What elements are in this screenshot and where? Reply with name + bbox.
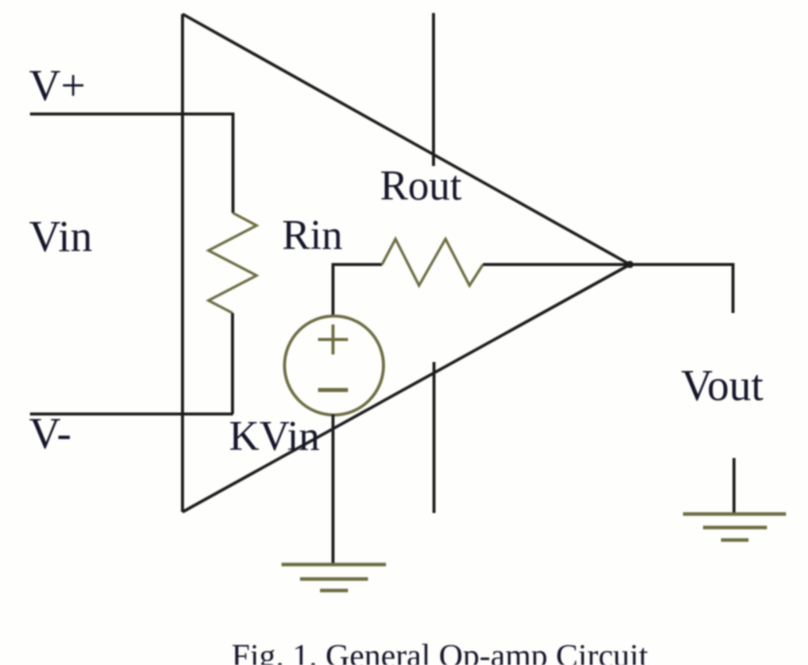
wire: output node to Vout stub — [630, 265, 733, 314]
dependent source KVin (controlled voltage source) — [285, 316, 384, 415]
svg-text:V+: V+ — [29, 61, 86, 110]
wire: Rin bottom to V- wire — [231, 313, 234, 414]
wire: Vout ground stub — [733, 458, 736, 514]
resistor Rout — [382, 239, 483, 286]
op-amp U1 triangle body — [183, 14, 631, 512]
ground (below Vout) — [683, 514, 786, 540]
wire: V+ input to Rin top — [30, 114, 233, 213]
wire: KVin bottom to ground — [332, 415, 335, 565]
ground (below KVin source) — [282, 565, 387, 591]
wire: KVin top to Rout left — [333, 265, 382, 317]
wire: negative supply rail through bottom of op-amp — [433, 362, 436, 513]
wire: Rout right to output node — [483, 263, 630, 266]
svg-text:Rin: Rin — [282, 213, 343, 259]
svg-text:Vout: Vout — [681, 361, 763, 410]
svg-text:Fig. 1. General Op-amp Circuit: Fig. 1. General Op-amp Circuit — [232, 638, 649, 665]
resistor Rin — [209, 213, 257, 313]
svg-text:Rout: Rout — [380, 164, 462, 210]
wire: positive supply rail through top of op-amp — [432, 13, 435, 166]
svg-text:V-: V- — [29, 409, 71, 458]
wire: V- input — [30, 413, 233, 416]
svg-text:KVin: KVin — [229, 414, 320, 460]
svg-text:Vin: Vin — [29, 212, 92, 261]
node output junction dot — [626, 261, 633, 268]
